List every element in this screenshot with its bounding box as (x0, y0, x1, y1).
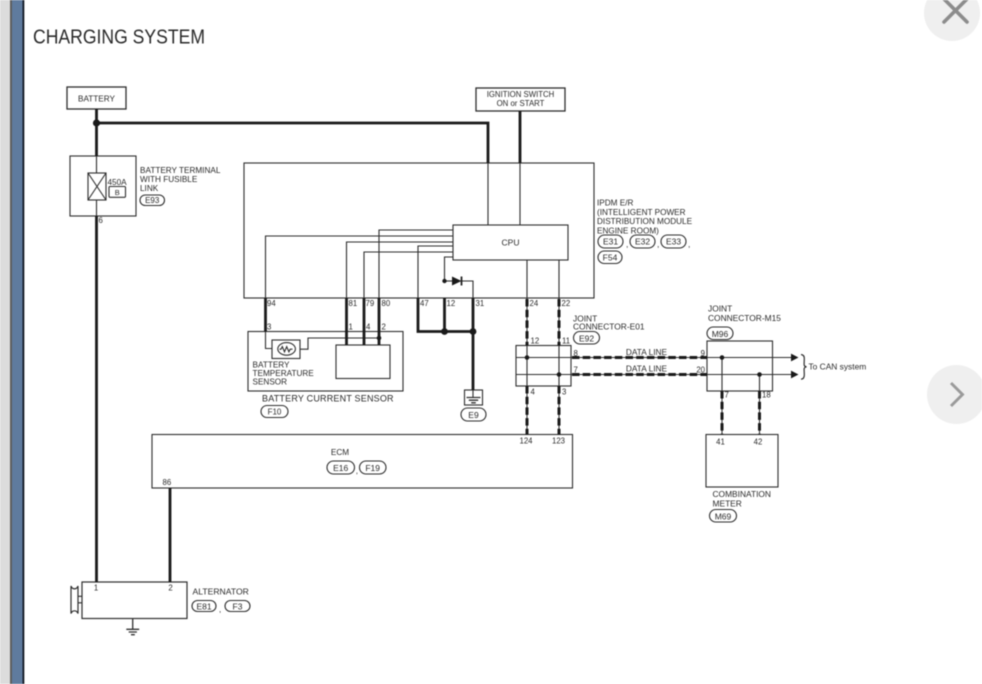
svg-text:3: 3 (562, 388, 566, 397)
svg-text:E9: E9 (468, 410, 479, 420)
svg-text:18: 18 (762, 391, 771, 400)
svg-text:31: 31 (476, 299, 485, 308)
svg-text:6: 6 (99, 216, 103, 225)
svg-text:ECM: ECM (331, 448, 349, 457)
svg-text:DATA LINE: DATA LINE (626, 364, 668, 374)
svg-text:8: 8 (574, 349, 578, 358)
svg-text:ALTERNATOR: ALTERNATOR (193, 587, 249, 597)
svg-text:,: , (688, 239, 690, 249)
svg-text:BATTERY: BATTERY (78, 95, 116, 104)
svg-text:79: 79 (366, 299, 375, 308)
svg-text:124: 124 (519, 437, 533, 446)
svg-text:86: 86 (163, 478, 172, 487)
svg-text:CPU: CPU (502, 238, 520, 248)
svg-text:123: 123 (552, 437, 565, 446)
svg-text:7: 7 (725, 391, 729, 400)
svg-text:E92: E92 (579, 333, 594, 343)
svg-text:ENGINE ROOM): ENGINE ROOM) (597, 226, 659, 235)
svg-text:E93: E93 (145, 196, 160, 205)
svg-text:IGNITION SWITCH: IGNITION SWITCH (487, 90, 555, 99)
svg-text:,: , (356, 467, 358, 476)
svg-text:42: 42 (754, 438, 763, 447)
svg-text:1: 1 (349, 323, 353, 332)
svg-text:12: 12 (531, 337, 540, 346)
svg-text:,: , (657, 239, 659, 249)
svg-text:DISTRIBUTION MODULE: DISTRIBUTION MODULE (597, 217, 693, 226)
svg-text:IPDM E/R: IPDM E/R (597, 199, 633, 208)
svg-text:To CAN system: To CAN system (809, 362, 867, 372)
svg-text:E81: E81 (196, 601, 211, 611)
svg-text:94: 94 (267, 299, 276, 308)
svg-text:81: 81 (349, 299, 358, 308)
svg-text:JOINT: JOINT (708, 304, 732, 314)
svg-text:1: 1 (94, 584, 98, 593)
svg-text:450A: 450A (108, 178, 128, 187)
svg-text:2: 2 (168, 584, 172, 593)
svg-text:CHARGING SYSTEM: CHARGING SYSTEM (33, 26, 205, 49)
svg-text:ON or START: ON or START (497, 99, 545, 108)
svg-text:B: B (115, 188, 120, 197)
svg-text:11: 11 (562, 337, 570, 346)
svg-text:METER: METER (713, 499, 742, 509)
svg-text:(INTELLIGENT POWER: (INTELLIGENT POWER (597, 208, 686, 217)
svg-text:E31: E31 (603, 237, 618, 247)
svg-text:24: 24 (530, 299, 539, 308)
svg-text:80: 80 (382, 299, 391, 308)
svg-text:,: , (626, 239, 628, 249)
svg-text:9: 9 (701, 349, 705, 358)
svg-text:F19: F19 (365, 463, 380, 473)
svg-text:20: 20 (696, 366, 705, 375)
svg-text:SENSOR: SENSOR (253, 378, 288, 387)
svg-text:LINK: LINK (140, 184, 159, 193)
svg-text:E32: E32 (635, 237, 650, 247)
svg-text:E16: E16 (333, 463, 348, 473)
svg-text:WITH FUSIBLE: WITH FUSIBLE (140, 175, 198, 184)
svg-text:47: 47 (420, 299, 429, 308)
svg-text:7: 7 (574, 366, 578, 375)
svg-text:DATA LINE: DATA LINE (626, 347, 668, 357)
svg-text:CONNECTOR-E01: CONNECTOR-E01 (573, 321, 645, 331)
svg-text:F10: F10 (268, 408, 282, 417)
svg-text:4: 4 (531, 388, 536, 397)
svg-text:41: 41 (716, 438, 725, 447)
svg-text:CONNECTOR-M15: CONNECTOR-M15 (708, 313, 781, 323)
svg-text:3: 3 (267, 323, 271, 332)
svg-text:,: , (219, 605, 221, 614)
svg-text:BATTERY CURRENT SENSOR: BATTERY CURRENT SENSOR (262, 394, 394, 404)
svg-text:E33: E33 (666, 237, 681, 247)
svg-text:F54: F54 (603, 253, 618, 263)
svg-text:22: 22 (562, 299, 571, 308)
svg-text:12: 12 (447, 299, 456, 308)
svg-text:M96: M96 (712, 329, 729, 339)
svg-text:4: 4 (366, 323, 371, 332)
svg-text:COMBINATION: COMBINATION (713, 489, 771, 499)
svg-text:BATTERY TERMINAL: BATTERY TERMINAL (140, 166, 221, 175)
svg-text:2: 2 (382, 323, 386, 332)
svg-text:F3: F3 (233, 601, 243, 611)
svg-text:M69: M69 (715, 511, 732, 521)
